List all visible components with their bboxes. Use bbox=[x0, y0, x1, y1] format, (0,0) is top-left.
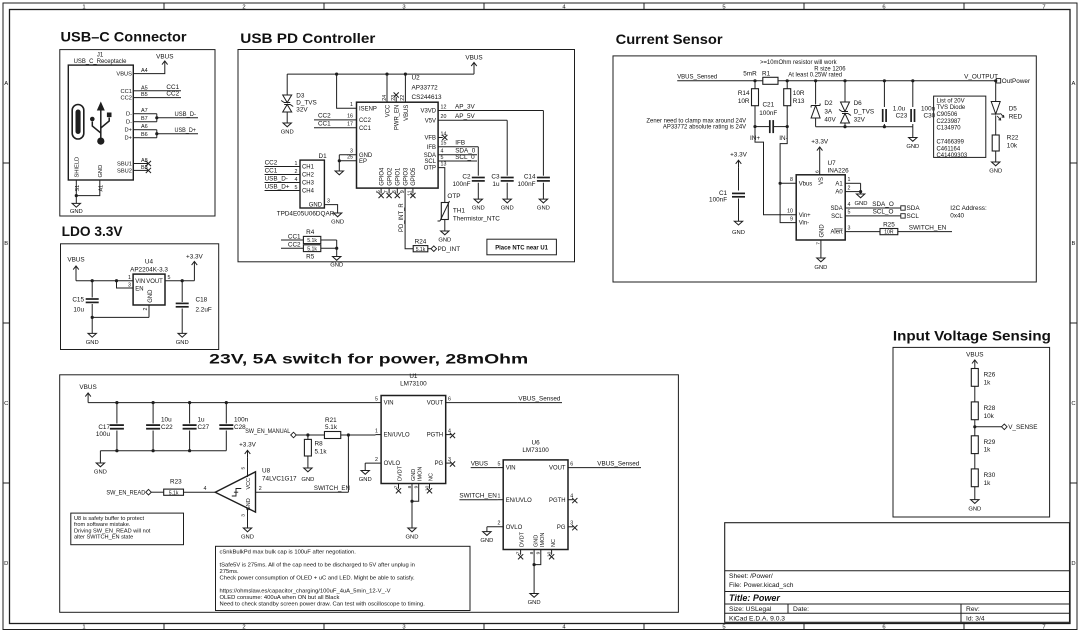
svg-text:IFB: IFB bbox=[455, 140, 465, 147]
note box capacitor discharge bbox=[216, 546, 471, 610]
svg-text:+3.3V: +3.3V bbox=[811, 138, 829, 145]
svg-text:1u: 1u bbox=[492, 181, 500, 188]
svg-text:100u: 100u bbox=[96, 431, 111, 438]
svg-text:R23: R23 bbox=[170, 478, 182, 485]
svg-text:100nF: 100nF bbox=[759, 110, 777, 117]
junction V_SENSE node bbox=[973, 425, 976, 428]
svg-text:5: 5 bbox=[498, 461, 501, 467]
resistor R14 bbox=[738, 81, 759, 127]
svg-text:OLED consume: 400uA when ON bu: OLED consume: 400uA when ON but all Blac… bbox=[220, 595, 340, 601]
svg-text:C3: C3 bbox=[491, 173, 500, 180]
svg-text:GND: GND bbox=[814, 265, 827, 271]
svg-text:CH3: CH3 bbox=[302, 181, 315, 187]
svg-text:Current Sensor: Current Sensor bbox=[616, 32, 724, 47]
svg-text:9: 9 bbox=[536, 551, 542, 554]
pin 11 GPIO5 of U2 bbox=[408, 167, 417, 198]
wire D- pair join bbox=[140, 114, 175, 122]
ground at J1 bbox=[72, 203, 80, 207]
svg-text:15: 15 bbox=[441, 141, 447, 147]
svg-text:6: 6 bbox=[815, 170, 821, 173]
U8 schmitt mark bbox=[232, 489, 242, 497]
svg-text:GPIO4: GPIO4 bbox=[379, 167, 385, 186]
svg-text:D-: D- bbox=[126, 112, 132, 118]
U6 bottom pin 10 NC no-connect bbox=[546, 539, 557, 559]
global label USB_D+ bbox=[174, 127, 198, 134]
junction R14 top bbox=[753, 79, 756, 82]
resistor R26 bbox=[971, 369, 995, 387]
svg-text:D1: D1 bbox=[319, 153, 328, 160]
svg-text:U7: U7 bbox=[828, 160, 837, 167]
svg-text:2: 2 bbox=[295, 169, 298, 175]
svg-text:3: 3 bbox=[128, 282, 131, 288]
svg-text:GND: GND bbox=[406, 535, 419, 541]
svg-text:5: 5 bbox=[722, 625, 725, 631]
U1 bottom pin 9 IMON bbox=[412, 467, 424, 502]
pin 13 OTP of U2 bbox=[424, 161, 447, 202]
svg-text:5.1k: 5.1k bbox=[169, 490, 179, 496]
IC U7 body bbox=[796, 175, 845, 240]
pin B5 CC2 of J1 bbox=[121, 92, 148, 102]
svg-text:VS: VS bbox=[819, 177, 825, 185]
svg-text:A: A bbox=[4, 81, 8, 87]
svg-text:DVDT: DVDT bbox=[397, 465, 403, 481]
svg-text:SWITCH_EN: SWITCH_EN bbox=[459, 493, 497, 500]
pin 5 SCL of U2, label SCL_0 bbox=[424, 154, 477, 165]
pin 1 VIN of U4 bbox=[128, 275, 145, 285]
svg-text:CC2: CC2 bbox=[318, 113, 331, 120]
svg-text:SDA_O: SDA_O bbox=[872, 201, 894, 208]
junction D5 rail bbox=[994, 79, 997, 82]
svg-text:SCL: SCL bbox=[907, 213, 920, 220]
svg-text:GPIO5: GPIO5 bbox=[411, 167, 417, 186]
svg-text:GND: GND bbox=[968, 506, 981, 512]
svg-text:+3.3V: +3.3V bbox=[730, 152, 748, 159]
svg-text:24: 24 bbox=[382, 95, 388, 101]
svg-text:5: 5 bbox=[295, 185, 298, 191]
svg-text:5: 5 bbox=[848, 210, 851, 216]
svg-text:VCC: VCC bbox=[386, 104, 392, 117]
svg-text:8: 8 bbox=[790, 177, 793, 183]
svg-text:A1: A1 bbox=[835, 181, 843, 187]
svg-text:10u: 10u bbox=[73, 307, 84, 314]
svg-text:VBUS_Sensed: VBUS_Sensed bbox=[518, 396, 560, 403]
svg-text:https://ohmslaw.es/capacitor_c: https://ohmslaw.es/capacitor_charging/10… bbox=[220, 588, 391, 594]
svg-text:5.1k: 5.1k bbox=[325, 424, 338, 431]
svg-text:1: 1 bbox=[82, 4, 85, 10]
hier label SW_EN_READ bbox=[106, 489, 163, 496]
ground C14 bbox=[539, 199, 547, 203]
wire SWITCH_EN up to EN node bbox=[347, 435, 349, 492]
svg-text:SDA: SDA bbox=[424, 153, 436, 159]
power flag VBUS switch bbox=[79, 384, 96, 402]
svg-text:GND: GND bbox=[309, 203, 322, 209]
note box TVS diode list bbox=[934, 96, 986, 159]
svg-text:CC1: CC1 bbox=[265, 167, 278, 174]
svg-text:U4: U4 bbox=[145, 259, 154, 266]
svg-text:USB–C Connector: USB–C Connector bbox=[61, 30, 188, 45]
svg-text:from software mistake.: from software mistake. bbox=[74, 522, 131, 528]
wire R28 to node bbox=[974, 420, 976, 436]
IC U6 body bbox=[503, 460, 568, 550]
svg-text:D+: D+ bbox=[125, 136, 133, 142]
svg-text:2: 2 bbox=[242, 4, 245, 10]
junction D+ node bbox=[155, 132, 158, 135]
svg-text:KiCad E.D.A. 9.0.3: KiCad E.D.A. 9.0.3 bbox=[729, 616, 785, 623]
pin 5 CH4 of D1 with label USB_D+ bbox=[265, 183, 315, 194]
junction U6 GND IMON bbox=[533, 563, 536, 566]
svg-text:6: 6 bbox=[448, 396, 451, 402]
svg-text:R24: R24 bbox=[415, 239, 427, 246]
global label CC2 at J1 bbox=[140, 91, 182, 98]
diode D2 schottky bbox=[811, 81, 820, 127]
IC U2 body bbox=[357, 102, 439, 188]
junction EN node bbox=[347, 433, 350, 436]
svg-text:CH4: CH4 bbox=[302, 189, 315, 195]
svg-text:C22: C22 bbox=[161, 424, 173, 431]
USB-C receptacle icon bbox=[72, 105, 84, 140]
svg-text:Driving SW_EN_READ will not: Driving SW_EN_READ will not bbox=[74, 528, 151, 534]
svg-text:5.1k: 5.1k bbox=[416, 247, 426, 253]
no-connect SBU1 bbox=[140, 161, 152, 166]
wire R30 to ground bbox=[974, 487, 976, 500]
junction C30 rail bbox=[911, 79, 914, 82]
svg-text:EN/UVLO: EN/UVLO bbox=[506, 498, 532, 504]
pin 9 Vin- of U7 bbox=[790, 216, 809, 226]
svg-text:GND: GND bbox=[732, 230, 745, 236]
svg-text:CC2: CC2 bbox=[288, 242, 301, 249]
svg-text:A0: A0 bbox=[835, 190, 843, 196]
thermistor TH1 bbox=[438, 201, 501, 222]
svg-text:U2: U2 bbox=[412, 75, 421, 82]
svg-text:4: 4 bbox=[848, 202, 851, 208]
junction Vbus IN- net bbox=[779, 182, 782, 185]
wire U2 GND/EP to ground bbox=[338, 155, 340, 171]
svg-text:PG: PG bbox=[557, 525, 566, 531]
ground C2 bbox=[474, 199, 482, 203]
pin 4 PGTH of U1 no-connect bbox=[427, 428, 455, 438]
svg-text:TVS Diode: TVS Diode bbox=[937, 105, 966, 111]
pin A1 GND of J1 bbox=[98, 165, 104, 192]
ground U7 bbox=[817, 258, 825, 262]
global label CC1 to pin 17 bbox=[314, 121, 372, 132]
svg-text:R1: R1 bbox=[762, 70, 771, 77]
note >=10mOhm resistor bbox=[760, 60, 846, 78]
resistor R28 bbox=[971, 402, 995, 420]
svg-text:16: 16 bbox=[347, 114, 353, 120]
svg-text:R4: R4 bbox=[306, 229, 315, 236]
wire A0 to ground bbox=[860, 192, 862, 194]
svg-text:32V: 32V bbox=[296, 107, 308, 114]
svg-text:SBU1: SBU1 bbox=[117, 162, 132, 168]
svg-text:OVLO: OVLO bbox=[506, 525, 523, 531]
svg-text:GND: GND bbox=[537, 206, 550, 212]
wire U8 output pin 2 SWITCH_EN bbox=[256, 486, 349, 492]
svg-text:IMON: IMON bbox=[418, 467, 424, 481]
svg-text:VBUS: VBUS bbox=[116, 72, 132, 78]
IC U2 reference bbox=[412, 75, 443, 102]
pin B6 D+ of J1 bbox=[125, 132, 148, 142]
pin 10 Vin+ of U7 bbox=[787, 209, 811, 219]
ESD diode D1 body bbox=[300, 160, 324, 208]
svg-text:R28: R28 bbox=[984, 405, 996, 412]
svg-text:NC: NC bbox=[551, 539, 557, 547]
ground D3 bbox=[283, 123, 291, 127]
svg-text:EN: EN bbox=[135, 286, 143, 292]
IC U1 body bbox=[381, 396, 446, 484]
svg-text:23: 23 bbox=[391, 95, 397, 101]
svg-text:D5: D5 bbox=[1009, 105, 1018, 112]
junction C23 bottom bbox=[883, 125, 886, 128]
svg-text:Size: USLegal: Size: USLegal bbox=[729, 606, 772, 613]
svg-text:cSnkBulkPd max bulk cap is 100: cSnkBulkPd max bulk cap is 100uF after n… bbox=[220, 549, 357, 555]
sheet pin OutPower bbox=[996, 78, 1031, 85]
wire SHIELD S1 to GND bbox=[75, 186, 77, 203]
svg-text:2: 2 bbox=[259, 486, 262, 492]
buffer U8 triangle bbox=[215, 472, 255, 512]
svg-text:6: 6 bbox=[570, 461, 573, 467]
global label CC2 to pin 16 bbox=[314, 113, 371, 124]
capacitor C15 bbox=[72, 281, 98, 318]
svg-text:USB_D+: USB_D+ bbox=[265, 183, 290, 190]
svg-text:9: 9 bbox=[414, 485, 420, 488]
svg-text:GPIO1: GPIO1 bbox=[396, 167, 402, 186]
global label USB_D- bbox=[174, 111, 198, 118]
svg-text:AP_3V: AP_3V bbox=[455, 103, 476, 110]
label SWITCH_EN at R25 bbox=[898, 225, 952, 232]
svg-text:AP_5V: AP_5V bbox=[455, 113, 476, 120]
resistor R4 bbox=[303, 229, 320, 244]
svg-text:GPIO3: GPIO3 bbox=[403, 167, 409, 186]
svg-text:Alert: Alert bbox=[830, 230, 843, 236]
section box Current Sensor bbox=[613, 56, 1036, 282]
junction A0 node bbox=[859, 190, 862, 193]
svg-text:DVDT: DVDT bbox=[519, 531, 525, 547]
U1 bottom pin 8 GND bbox=[407, 469, 417, 528]
svg-text:C18: C18 bbox=[196, 297, 208, 304]
svg-text:USB_D-: USB_D- bbox=[265, 175, 288, 182]
svg-text:CC2: CC2 bbox=[359, 118, 371, 124]
svg-text:9: 9 bbox=[400, 190, 406, 193]
svg-text:GND: GND bbox=[501, 206, 514, 212]
svg-text:1: 1 bbox=[350, 102, 353, 108]
svg-text:10R: 10R bbox=[793, 90, 805, 97]
svg-text:GND: GND bbox=[148, 290, 154, 303]
svg-text:8: 8 bbox=[407, 485, 413, 488]
svg-text:AP33772 absolute rating is 24V: AP33772 absolute rating is 24V bbox=[663, 125, 746, 131]
svg-text:GND: GND bbox=[855, 201, 868, 207]
svg-text:CC2: CC2 bbox=[121, 96, 132, 102]
section box USB PD Controller bbox=[238, 50, 575, 262]
svg-text:3: 3 bbox=[402, 4, 405, 10]
pin 4 CH3 of D1 with label USB_D- bbox=[265, 175, 315, 186]
svg-text:10R: 10R bbox=[884, 230, 894, 236]
svg-text:B: B bbox=[1072, 241, 1076, 247]
junction ISENP rail bbox=[335, 73, 338, 76]
svg-text:R30: R30 bbox=[984, 472, 996, 479]
svg-text:SCL_O: SCL_O bbox=[873, 209, 894, 216]
svg-text:3: 3 bbox=[402, 625, 405, 631]
svg-text:D: D bbox=[1071, 561, 1075, 567]
pin 2 GND of U4 bbox=[143, 290, 154, 318]
svg-text:C134970: C134970 bbox=[937, 126, 962, 132]
svg-text:VBUS: VBUS bbox=[404, 105, 410, 121]
pin 22 VBUS of U2 bbox=[400, 74, 410, 121]
pin 3 GND of U2 bbox=[339, 149, 372, 159]
svg-text:C21: C21 bbox=[762, 101, 774, 108]
svg-text:GND: GND bbox=[281, 130, 294, 136]
sheet pin SCL bbox=[901, 213, 920, 220]
svg-text:File: Power.kicad_sch: File: Power.kicad_sch bbox=[729, 582, 794, 589]
pin 1 ISENP of U2 bbox=[337, 74, 377, 112]
ground U1 bbox=[408, 528, 416, 532]
svg-text:1: 1 bbox=[128, 275, 131, 281]
global label CC1 to R4 bbox=[281, 233, 303, 240]
svg-text:VIN: VIN bbox=[384, 401, 394, 407]
diode D6 TVS bbox=[839, 81, 851, 127]
pin A5 CC1 of J1 bbox=[121, 85, 148, 95]
svg-text:VCC: VCC bbox=[246, 478, 252, 490]
svg-text:OTP: OTP bbox=[447, 193, 460, 200]
svg-text:R14: R14 bbox=[738, 90, 750, 97]
svg-text:GND: GND bbox=[819, 224, 825, 237]
wire clamp bottom net bbox=[816, 126, 913, 128]
wire IN- net with jog bbox=[780, 127, 796, 223]
wire VBUS rail LDO bbox=[76, 280, 133, 282]
junction D- node bbox=[155, 116, 158, 119]
LED D5 bbox=[991, 81, 1004, 135]
U1 bottom pin 10 NC no-connect bbox=[424, 473, 434, 493]
hier label SW_EN_MANUAL bbox=[245, 428, 324, 438]
pin A7 D- of J1 bbox=[126, 108, 148, 118]
label VBUS_Sensed U1 bbox=[518, 396, 562, 403]
svg-text:6: 6 bbox=[882, 625, 885, 631]
svg-text:tSafe5V is 275ms. All of the c: tSafe5V is 275ms. All of the cap need to… bbox=[220, 562, 415, 568]
resistor R21 bbox=[324, 417, 340, 439]
svg-text:GND: GND bbox=[472, 206, 485, 212]
pin B8 SBU2 of J1 bbox=[117, 165, 148, 175]
pin 6 VOUT of U6 bbox=[549, 461, 596, 471]
svg-text:Check power consumption of OLE: Check power consumption of OLED + uC and… bbox=[220, 575, 415, 581]
global label CC2 to R5 bbox=[281, 242, 303, 249]
svg-text:5.1k: 5.1k bbox=[307, 246, 317, 252]
svg-text:U6: U6 bbox=[532, 439, 541, 446]
power flag +3.3V LDO bbox=[186, 254, 204, 281]
svg-text:D+: D+ bbox=[125, 128, 133, 134]
svg-text:C: C bbox=[4, 401, 8, 407]
pin 7 GND of U7 bbox=[816, 224, 826, 258]
wire R29 to R30 bbox=[974, 454, 976, 469]
svg-text:USB_D+: USB_D+ bbox=[175, 127, 197, 134]
wire rail after R1 bbox=[778, 80, 996, 82]
section box USB-C Connector bbox=[60, 50, 215, 216]
svg-text:C2: C2 bbox=[462, 173, 471, 180]
svg-text:14: 14 bbox=[441, 131, 447, 137]
svg-text:V_OUTPUT: V_OUTPUT bbox=[964, 74, 998, 81]
svg-text:100nF: 100nF bbox=[517, 181, 535, 188]
label VBUS to U6 bbox=[471, 461, 498, 468]
svg-text:A: A bbox=[1072, 81, 1076, 87]
wire TH1 to ground bbox=[444, 220, 446, 232]
svg-text:SWITCH_EN: SWITCH_EN bbox=[314, 485, 350, 492]
svg-text:C7466399: C7466399 bbox=[937, 139, 965, 145]
junction C23 rail bbox=[883, 79, 886, 82]
junction C21 left bbox=[753, 125, 756, 128]
svg-text:VOUT: VOUT bbox=[427, 401, 444, 407]
pin 4 SDA of U2, label SDA_0 bbox=[424, 148, 477, 159]
svg-text:VBUS: VBUS bbox=[471, 461, 488, 468]
label VBUS_Sensed U6 bbox=[596, 461, 641, 468]
svg-text:D-: D- bbox=[126, 120, 132, 126]
svg-text:D6: D6 bbox=[854, 100, 863, 107]
resistor R22 bbox=[992, 135, 1019, 163]
pin 1 EN/UVLO of U1 bbox=[375, 428, 410, 438]
wire clamp net to ground bbox=[912, 127, 914, 138]
pin 5 VIN of U1 bbox=[375, 396, 393, 406]
pin 2 OVLO of U1 bbox=[365, 457, 400, 467]
svg-text:100nF: 100nF bbox=[709, 196, 727, 203]
svg-text:Zener need to clamp max around: Zener need to clamp max around 24V bbox=[646, 119, 746, 125]
junction C18 top bbox=[181, 279, 184, 282]
pin 2 CH2 of D1 with label CC1 bbox=[265, 167, 314, 178]
ground R22 bbox=[992, 162, 1000, 166]
svg-text:CC1: CC1 bbox=[318, 121, 331, 128]
svg-text:275ms.: 275ms. bbox=[220, 569, 239, 575]
svg-text:OTP: OTP bbox=[424, 166, 436, 172]
svg-text:GND: GND bbox=[98, 165, 104, 178]
ground C15 bbox=[88, 333, 96, 337]
junction S1/A1 node bbox=[75, 194, 78, 197]
svg-text:D3: D3 bbox=[296, 92, 305, 99]
ground A0 A1 bbox=[855, 194, 868, 207]
svg-text:CC1: CC1 bbox=[359, 126, 372, 132]
resistor R29 bbox=[971, 436, 995, 454]
svg-text:Rev:: Rev: bbox=[966, 606, 980, 613]
svg-text:R25: R25 bbox=[883, 221, 895, 228]
svg-text:C461164: C461164 bbox=[937, 146, 961, 152]
U7 reference bbox=[828, 160, 850, 174]
pin A8 SBU1 of J1 bbox=[117, 158, 148, 168]
svg-text:10u: 10u bbox=[161, 416, 172, 423]
svg-text:V5V: V5V bbox=[425, 118, 436, 124]
svg-text:5mR: 5mR bbox=[743, 70, 757, 77]
diode D3 labels bbox=[296, 92, 317, 113]
svg-text:TH1: TH1 bbox=[453, 208, 465, 215]
svg-text:AP33772: AP33772 bbox=[412, 85, 439, 92]
svg-text:LM73100: LM73100 bbox=[522, 447, 549, 454]
U6 bottom pin 8 GND bbox=[529, 535, 540, 594]
hier label PD_INT bbox=[428, 246, 460, 253]
pin 6 GPIO4 of U2 bbox=[376, 167, 385, 198]
section box Input Voltage Sensing bbox=[893, 347, 1050, 517]
connector J1 reference bbox=[74, 53, 128, 66]
svg-text:7: 7 bbox=[1042, 625, 1045, 631]
pin A6 D+ of J1 bbox=[125, 124, 148, 134]
pin 1 CH1 of D1 with label CC2 bbox=[265, 159, 315, 170]
shunt resistor R1 5mR bbox=[743, 70, 778, 84]
title block bbox=[725, 523, 1070, 623]
svg-text:3A: 3A bbox=[824, 108, 833, 115]
note zener clamp bbox=[646, 119, 746, 131]
ground OVLO U1 bbox=[361, 471, 369, 475]
svg-text:OutPower: OutPower bbox=[1002, 78, 1031, 85]
U8 reference bbox=[262, 467, 297, 482]
svg-text:IN+: IN+ bbox=[750, 135, 760, 142]
capacitor C28 bbox=[219, 401, 248, 451]
svg-text:2: 2 bbox=[143, 308, 149, 311]
svg-text:+3.3V: +3.3V bbox=[186, 254, 204, 261]
resistor R13 bbox=[784, 81, 805, 127]
svg-text:GND: GND bbox=[533, 535, 539, 547]
